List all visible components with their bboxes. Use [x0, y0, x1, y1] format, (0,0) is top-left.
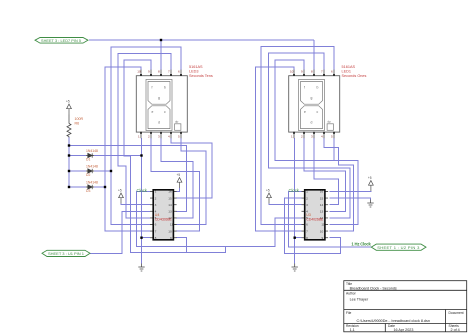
svg-text:3: 3 — [155, 203, 157, 207]
wire: LED1 bottom pin2 to U3 pin13 — [304, 138, 345, 211]
svg-text:Seconds Tens: Seconds Tens — [189, 74, 213, 78]
svg-text:U4: U4 — [155, 213, 160, 217]
svg-text:2: 2 — [306, 196, 308, 200]
svg-text:16: 16 — [168, 190, 172, 194]
svg-text:U3: U3 — [306, 213, 311, 217]
wire: U4 pin16 to +5 — [176, 188, 180, 192]
svg-text:8: 8 — [306, 236, 308, 240]
wire: rail drop to LED3 pin3 top — [160, 40, 162, 70]
label LED1 values — [342, 65, 367, 78]
wire: LED1 top pin5 to U3 pin6 — [261, 47, 334, 225]
svg-text:100R: 100R — [75, 117, 84, 121]
wire: +5 to U3 pin3 — [269, 204, 302, 205]
svg-text:11: 11 — [321, 223, 324, 227]
svg-text:16 Apr 2023: 16 Apr 2023 — [394, 328, 414, 332]
svg-text:10: 10 — [290, 70, 294, 74]
svg-text:9: 9 — [322, 236, 324, 240]
ground below U4 — [138, 264, 144, 272]
sheet connector label SHEET 1 : U2 PIN 3 — [371, 244, 426, 250]
node: U3 pin8 gnd — [294, 237, 296, 239]
wire: sheet3 U1 label to U4 pin4 — [90, 211, 150, 253]
node: D1 cathode at gnd column — [140, 154, 142, 156]
wire: LED1 bottom pin5 join — [333, 138, 335, 161]
svg-text:14: 14 — [168, 203, 172, 207]
svg-text:14: 14 — [320, 203, 324, 207]
node: U4 pin8 gnd — [140, 237, 142, 239]
wire: LED3 top pin2 to U4 pin9 — [124, 60, 226, 252]
svg-text:c: c — [317, 110, 319, 114]
svg-text:Lee Thayer: Lee Thayer — [350, 297, 369, 301]
wire: LED3 bottom pin2 to U4 pin13 — [151, 138, 200, 231]
wire: diode column feed — [68, 156, 70, 188]
svg-text:+5: +5 — [66, 100, 70, 104]
svg-text:Seconds Ones: Seconds Ones — [342, 74, 367, 78]
node: reset pullup — [68, 144, 70, 146]
power +5 at U4 pin3 — [119, 193, 124, 204]
diode D1 1N4148 — [86, 153, 94, 157]
wire: D2 cathode to node — [94, 170, 111, 172]
wire: LED3 bottom pin4 to U4 pin10 — [171, 138, 212, 198]
wire: LED3 bottom pin1 to U4 pin8 and ground — [142, 138, 151, 238]
svg-text:+5: +5 — [177, 173, 181, 177]
svg-text:D1: D1 — [86, 157, 90, 161]
wire: LED1 top pin4 to U3 pin11 — [269, 53, 351, 218]
svg-text:R6: R6 — [75, 121, 80, 125]
svg-text:D2: D2 — [86, 173, 90, 177]
wire: net LED7-PIN5 rail — [89, 39, 314, 41]
svg-text:5161AS: 5161AS — [189, 65, 203, 69]
svg-text:e: e — [304, 110, 306, 114]
svg-text:15: 15 — [168, 196, 172, 200]
wire: U3 pin16 to +5 — [330, 190, 371, 193]
svg-text:Author: Author — [346, 292, 357, 296]
svg-text:1.1: 1.1 — [350, 328, 355, 332]
svg-text:SHEET 1 : U2 PIN 3: SHEET 1 : U2 PIN 3 — [377, 245, 420, 250]
svg-text:13: 13 — [320, 210, 324, 214]
svg-text:9: 9 — [170, 236, 172, 240]
wire: LED1 top pin2 to U3 pin2 — [275, 60, 358, 225]
wire: LED3 bottom pin5 to U4 pin11 — [176, 138, 206, 225]
svg-text:2: 2 — [155, 196, 157, 200]
svg-text:+5: +5 — [266, 189, 270, 193]
power +5 above R6 — [67, 104, 72, 115]
wire: D3 cathode to node — [94, 186, 105, 188]
svg-text:d: d — [158, 121, 160, 125]
7-segment display LED1 — [289, 70, 340, 139]
svg-text:11: 11 — [170, 223, 173, 227]
svg-text:f: f — [304, 86, 305, 90]
wire: LED1 top pin1 to U3 pin7 — [256, 67, 302, 231]
title block — [344, 281, 467, 332]
svg-text:D3: D3 — [86, 189, 90, 193]
svg-text:2 of 4: 2 of 4 — [451, 328, 460, 332]
ground below U3 — [292, 264, 298, 272]
svg-text:dp: dp — [328, 120, 332, 124]
svg-text:g: g — [158, 96, 160, 100]
wire: D3 anode — [69, 186, 86, 188]
wire: reset pullup node to U4 pin15 — [69, 146, 186, 212]
svg-text:b: b — [164, 86, 166, 90]
sheet connector label SHEET 3 : LED7 PIN 5 — [35, 38, 88, 44]
svg-text:1: 1 — [306, 190, 308, 194]
svg-text:6: 6 — [306, 223, 308, 227]
svg-text:16: 16 — [320, 190, 324, 194]
IC U4 CD4026BE — [150, 190, 177, 240]
wire: LED3 top pin4 to U4 pin5 — [118, 54, 171, 218]
svg-text:g: g — [311, 96, 313, 100]
wire: U4 pin9 riser — [176, 238, 187, 253]
svg-text:Clock: Clock — [137, 188, 148, 193]
svg-text:SHEET 3 : LED7 PIN 5: SHEET 3 : LED7 PIN 5 — [41, 39, 81, 43]
node: D2 anode junction — [68, 170, 70, 172]
power +5 at U4 pin16 — [177, 178, 182, 189]
svg-text:+5: +5 — [368, 176, 372, 180]
svg-text:1 Hz Clock: 1 Hz Clock — [351, 241, 371, 246]
svg-text:CD4026BE: CD4026BE — [306, 218, 324, 222]
svg-text:LED1: LED1 — [342, 70, 352, 74]
svg-text:f: f — [152, 86, 153, 90]
wire: U3 pin9 loop — [284, 198, 340, 253]
svg-text:1N4148: 1N4148 — [86, 180, 98, 184]
svg-text:dp: dp — [175, 120, 179, 124]
svg-text:c: c — [164, 110, 166, 114]
svg-text:1N4148: 1N4148 — [86, 149, 98, 153]
IC U3 CD4026BE — [302, 190, 329, 240]
wire: D1 anode — [69, 155, 86, 157]
power +5 at U3 pin16 — [369, 181, 374, 192]
wire: rail drop to LED1 pin3 top — [313, 40, 315, 70]
svg-text:SHEET 3 : U1 PIN 1: SHEET 3 : U1 PIN 1 — [48, 251, 85, 256]
7-segment display LED3 — [136, 70, 187, 139]
svg-text:LED3: LED3 — [189, 70, 199, 74]
node: D3 cathode — [104, 186, 106, 188]
wire: LED1 bottom pin4 to U3 pin10 — [324, 138, 354, 231]
svg-text:Breadboard Clock - Seconds: Breadboard Clock - Seconds — [350, 286, 397, 290]
wire: U3 carry pin5 to U4 clock pin1 — [136, 192, 301, 247]
svg-text:15: 15 — [320, 196, 324, 200]
svg-text:13: 13 — [168, 210, 172, 214]
svg-text:7: 7 — [306, 229, 308, 233]
wire: 1Hz clock net to U3 pin1 — [289, 192, 372, 248]
svg-text:10: 10 — [137, 70, 141, 74]
wire: LED3 bottom pin3 to U4 pin12 — [161, 138, 193, 218]
svg-text:Title: Title — [346, 282, 352, 286]
svg-text:6: 6 — [155, 223, 157, 227]
sheet connector label SHEET 3 : U1 PIN 1 — [42, 250, 90, 256]
node: D3 anode junction — [68, 186, 70, 188]
svg-text:8: 8 — [155, 236, 157, 240]
svg-text:b: b — [317, 86, 319, 90]
wire: D2 anode — [69, 170, 86, 172]
svg-text:e: e — [152, 110, 154, 114]
wire: U3 pin15 to ground — [330, 198, 371, 199]
svg-text:1N4148: 1N4148 — [86, 164, 98, 168]
svg-text:7: 7 — [155, 229, 157, 233]
svg-text:Clock: Clock — [289, 188, 300, 193]
svg-text:3: 3 — [306, 203, 308, 207]
label LED3 values — [189, 65, 213, 78]
svg-text:CD4026BE: CD4026BE — [155, 218, 173, 222]
svg-text:File: File — [346, 311, 351, 315]
wire: +5 to U4 pin3 — [121, 204, 150, 205]
svg-text:10: 10 — [168, 229, 172, 233]
wire: D2 node to LED3 top pin5 and U4 pin6 — [111, 47, 181, 225]
svg-text:Document: Document — [449, 311, 464, 315]
node: D1 anode junction — [68, 154, 70, 156]
power +5 at U3 pin3 — [267, 193, 272, 204]
wire: D1 cathode to gnd column — [94, 155, 142, 157]
svg-text:10: 10 — [320, 229, 324, 233]
resistor R6 100R — [67, 115, 83, 138]
ground at U3 pin15 — [367, 200, 373, 208]
wire: LED1 bottom pin1 to U3 pin8 and ground — [295, 138, 302, 238]
wire: LED1 bottom pin3 to U3 pin14 — [314, 138, 339, 205]
diode D2 1N4148 — [86, 169, 94, 173]
diode D3 1N4148 — [86, 185, 94, 189]
node: D2 cathode — [110, 170, 112, 172]
svg-text:5161AS: 5161AS — [342, 65, 356, 69]
wire: D3 node to LED3 top pin1 and U4 pin7 — [105, 67, 150, 231]
svg-text:C:\Users\U9000De... breadboa: C:\Users\U9000De... breadboard clock 8.d… — [357, 319, 430, 323]
wire: resistor R6 bottom to reset node — [68, 137, 70, 156]
svg-text:d: d — [311, 121, 313, 125]
svg-text:1: 1 — [155, 190, 157, 194]
svg-text:+5: +5 — [118, 189, 122, 193]
node: rail junction — [160, 39, 162, 41]
